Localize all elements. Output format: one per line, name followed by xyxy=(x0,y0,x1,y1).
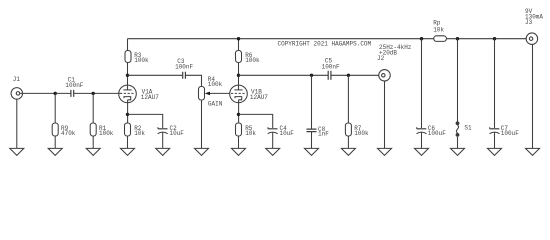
resistor Rp xyxy=(433,20,446,42)
wire R9 bottom xyxy=(54,136,56,148)
wire R5 bottom xyxy=(238,136,240,148)
svg-text:COPYRIGHT 2021 HAGAMPS.COM: COPYRIGHT 2021 HAGAMPS.COM xyxy=(278,40,372,47)
wire C5 to J2 xyxy=(331,74,379,76)
node (R9 junction) xyxy=(54,92,57,95)
connector J1 xyxy=(11,76,23,99)
wire R7 bottom xyxy=(347,136,349,148)
svg-text:100k: 100k xyxy=(99,130,114,137)
potentiometer R4 xyxy=(199,76,230,108)
wire R6 to plate node xyxy=(238,63,240,90)
svg-text:100nF: 100nF xyxy=(65,82,83,89)
node (V1B cathode) xyxy=(237,113,240,116)
wire R1 bottom xyxy=(92,136,94,148)
svg-text:470k: 470k xyxy=(61,130,76,137)
wire R9 top xyxy=(54,93,56,123)
wire R4 bottom to ground xyxy=(201,100,203,148)
node (R7 junction) xyxy=(347,74,350,77)
ground (J1) xyxy=(10,148,24,155)
node (C6 junction) xyxy=(420,37,423,40)
wire C8 top xyxy=(311,75,313,129)
ground (R2) xyxy=(121,148,135,155)
node (C7 junction) xyxy=(493,37,496,40)
ground (C8) xyxy=(305,148,319,155)
capacitor C1 xyxy=(65,76,83,97)
resistor R3 xyxy=(125,39,149,64)
svg-text:J1: J1 xyxy=(13,76,21,83)
ground (R7) xyxy=(341,148,355,155)
svg-text:100k: 100k xyxy=(245,57,260,64)
resistor R5 xyxy=(236,123,257,137)
capacitor C6 xyxy=(417,125,447,137)
wire J3 down xyxy=(532,44,534,148)
wire R3 to plate node xyxy=(127,63,129,90)
svg-text:100k: 100k xyxy=(208,81,223,88)
triode V1B xyxy=(230,85,269,103)
svg-text:12AU7: 12AU7 xyxy=(250,94,268,101)
svg-text:100nF: 100nF xyxy=(322,64,340,71)
ground (R1) xyxy=(86,148,100,155)
svg-text:S1: S1 xyxy=(464,124,472,131)
node (R1 junction) xyxy=(92,92,95,95)
resistor R1 xyxy=(90,123,114,137)
node (V1B plate) xyxy=(237,74,240,77)
ground (J2) xyxy=(378,148,392,155)
wire C1 to V1A grid xyxy=(74,92,121,94)
wire J2 down xyxy=(384,81,386,148)
connector J2 xyxy=(377,55,390,81)
ground (R9) xyxy=(48,148,62,155)
capacitor C3 xyxy=(175,58,193,79)
svg-text:10k: 10k xyxy=(245,130,256,137)
B+ rail xyxy=(128,38,527,40)
wire C7 top xyxy=(494,39,496,128)
wire S1 top xyxy=(457,39,459,122)
wire C4 bottom xyxy=(272,132,274,148)
wire C6 bottom xyxy=(421,132,423,148)
capacitor C8 xyxy=(307,126,330,138)
svg-text:+20dB: +20dB xyxy=(379,49,397,56)
wire signal J1 to C1 xyxy=(20,92,71,94)
wire V1B cathode down xyxy=(238,100,240,123)
switch S1 xyxy=(456,121,472,136)
ground (C4) xyxy=(266,148,280,155)
wire J1 to ground xyxy=(16,99,18,148)
resistor R6 xyxy=(236,39,261,64)
triode V1A xyxy=(119,85,160,103)
svg-text:10uF: 10uF xyxy=(280,130,295,137)
svg-text:J3: J3 xyxy=(525,19,533,26)
wire C6 top xyxy=(421,39,423,128)
resistor R7 xyxy=(345,123,369,137)
ground (C6) xyxy=(415,148,429,155)
svg-text:12AU7: 12AU7 xyxy=(141,94,159,101)
ground (C7) xyxy=(488,148,502,155)
node (C8 junction) xyxy=(310,74,313,77)
ground (R4) xyxy=(195,148,209,155)
capacitor C2 xyxy=(158,125,185,137)
svg-text:10uF: 10uF xyxy=(170,130,185,137)
connector J3 xyxy=(525,8,543,44)
svg-text:100nF: 100nF xyxy=(175,63,193,70)
ground (J3) xyxy=(526,148,540,155)
wire C3 to pot R4 xyxy=(185,75,201,86)
ground (R5) xyxy=(232,148,246,155)
wire cathode node to C2 xyxy=(128,114,163,128)
resistor R9 xyxy=(52,123,76,137)
wire V1A cathode down xyxy=(127,100,129,123)
svg-text:10k: 10k xyxy=(134,130,145,137)
capacitor C5 xyxy=(322,57,340,80)
resistor R2 xyxy=(125,123,146,137)
wire C2 bottom xyxy=(162,132,164,148)
wire R2 bottom xyxy=(127,136,129,148)
wire C7 bottom xyxy=(494,132,496,148)
ground (S1) xyxy=(451,148,465,155)
svg-text:10k: 10k xyxy=(433,26,444,33)
op wire plate row to C3 xyxy=(128,74,183,76)
svg-text:1nF: 1nF xyxy=(318,130,329,137)
wire R1 top xyxy=(92,93,94,123)
node (V1A cathode) xyxy=(126,113,129,116)
wire cathode node to C4 xyxy=(239,114,273,128)
node (S1 junction) xyxy=(456,37,459,40)
node (rail R6) xyxy=(237,37,240,40)
ground (C2) xyxy=(156,148,170,155)
svg-text:GAIN: GAIN xyxy=(208,101,223,108)
capacitor C7 xyxy=(490,125,520,137)
svg-text:100k: 100k xyxy=(354,130,369,137)
wire C8 bottom xyxy=(311,132,313,149)
wire R7 top xyxy=(347,75,349,123)
svg-text:100k: 100k xyxy=(134,57,149,64)
capacitor C4 xyxy=(268,125,295,137)
wire plate row to C5 xyxy=(239,74,329,76)
svg-text:100uF: 100uF xyxy=(501,130,519,137)
node (V1A plate) xyxy=(126,74,129,77)
svg-text:100uF: 100uF xyxy=(428,130,446,137)
wire S1 bottom xyxy=(457,137,459,149)
